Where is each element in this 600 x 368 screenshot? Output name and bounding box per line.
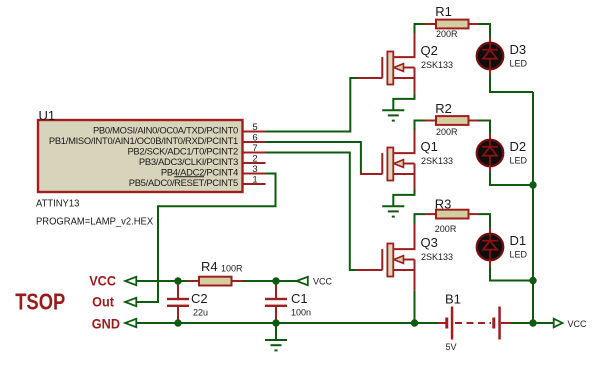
ground symbol below C1 <box>265 323 287 350</box>
svg-text:Out: Out <box>92 294 114 310</box>
svg-text:PB5/ADC0/RESET/PCINT5: PB5/ADC0/RESET/PCINT5 <box>129 177 238 188</box>
Q1 gate lead <box>360 173 382 175</box>
junction dot rail-battery <box>529 319 536 326</box>
svg-text:PB2/SCK/ADC1/T0/PCINT2: PB2/SCK/ADC1/T0/PCINT2 <box>127 146 238 157</box>
svg-text:Q2: Q2 <box>421 43 438 58</box>
battery B1 <box>438 292 512 353</box>
D3 bottom lead red <box>489 69 491 75</box>
LED D1 <box>477 228 528 266</box>
TSOP GND input terminal arrow <box>125 319 136 327</box>
B1 cell1 short plate <box>445 318 448 329</box>
D1 top lead red <box>489 228 491 234</box>
TSOP Out input terminal arrow <box>125 298 136 306</box>
capacitor C1 bottom lead <box>275 307 277 323</box>
wire D2 to VCC rail <box>490 172 533 185</box>
junction dot D2 rail <box>529 181 536 188</box>
Q1 drain lead <box>393 130 414 153</box>
svg-text:Q1: Q1 <box>421 139 438 154</box>
chip U1 body <box>38 120 243 192</box>
Q3 arrow lead line <box>403 259 415 261</box>
svg-text:D2: D2 <box>510 139 527 154</box>
Q1 drain wire green part <box>415 121 426 131</box>
svg-text:D1: D1 <box>510 233 527 248</box>
svg-text:PB3/ADC3/CLKI/PCINT3: PB3/ADC3/CLKI/PCINT3 <box>139 156 238 167</box>
resistor R1 body <box>436 20 469 29</box>
B1 left lead <box>438 322 446 324</box>
TSOP Out label <box>92 294 114 310</box>
svg-text:R3: R3 <box>435 196 452 211</box>
overline over RESET <box>174 176 204 178</box>
resistor R2 body <box>436 116 469 125</box>
pin 1 stub <box>242 183 266 185</box>
wire Q3 source to GND rail <box>414 291 416 323</box>
Q2 drain wire green part <box>415 24 426 33</box>
VCC rail wire (left) <box>137 280 188 282</box>
ground symbol at Q2 <box>382 110 404 120</box>
resistor R1 right lead <box>469 23 479 25</box>
svg-text:Q3: Q3 <box>421 235 438 250</box>
svg-text:GND: GND <box>92 316 121 332</box>
VCC rail wire (R4 right to VCC terminal) <box>243 280 297 282</box>
pin 3 stub <box>242 173 266 175</box>
D1 circle <box>477 234 503 260</box>
D2 bottom lead red <box>489 166 491 172</box>
svg-text:R1: R1 <box>435 4 452 19</box>
resistor R4 right lead <box>232 280 244 282</box>
wire R1 to D3 <box>478 24 490 37</box>
resistor R4 left lead <box>187 280 199 282</box>
wire PB4 to TSOP Out <box>137 174 276 303</box>
Q2 arrow triangle <box>394 64 404 72</box>
LED D3 <box>477 37 528 75</box>
Q3 gate lead <box>356 269 382 271</box>
svg-text:C1: C1 <box>291 291 308 306</box>
svg-text:LED: LED <box>510 58 528 68</box>
svg-text:100n: 100n <box>291 308 311 318</box>
wire PB0 to Q2 gate <box>266 78 358 132</box>
svg-text:C2: C2 <box>191 291 208 306</box>
svg-text:PROGRAM=LAMP_v2.HEX: PROGRAM=LAMP_v2.HEX <box>36 216 153 228</box>
capacitor C1 plates <box>265 298 287 300</box>
D1 diode symbol <box>482 234 498 260</box>
junction dot C2-VCC <box>174 277 181 284</box>
svg-text:PB1/MISO/INT0/AIN1/OC0B/INT0/R: PB1/MISO/INT0/AIN1/OC0B/INT0/RXD/PCINT1 <box>49 135 238 146</box>
VCC mid terminal arrow <box>297 277 308 285</box>
capacitor C2 bottom lead <box>177 307 179 323</box>
svg-text:2SK133: 2SK133 <box>421 156 453 166</box>
svg-text:VCC: VCC <box>313 277 333 287</box>
capacitor C1 top lead <box>275 281 277 298</box>
svg-text:7: 7 <box>252 143 257 154</box>
svg-text:R4: R4 <box>201 259 218 274</box>
MOSFET Q1 <box>360 121 453 191</box>
B1 cell2 long plate <box>498 307 501 340</box>
pin 7 stub <box>242 152 266 154</box>
wire R2 to D2 <box>478 121 490 135</box>
svg-text:VCC: VCC <box>89 273 116 289</box>
pin 2 stub <box>242 162 266 164</box>
svg-text:200R: 200R <box>436 29 458 39</box>
MOSFET Q3 <box>356 214 453 291</box>
Q1 channel bar <box>387 148 393 181</box>
wire Q2 source to ground <box>393 94 414 110</box>
wire D3 to VCC rail <box>490 75 533 92</box>
svg-text:100R: 100R <box>221 264 243 274</box>
wire battery to VCC terminal <box>511 322 554 324</box>
D1 bottom lead red <box>489 260 491 266</box>
svg-text:2SK133: 2SK133 <box>421 60 453 70</box>
D2 circle <box>477 140 503 166</box>
pin 5 stub <box>242 131 266 133</box>
svg-text:200R: 200R <box>436 127 458 137</box>
MOSFET Q2 <box>357 24 453 94</box>
chip U1 program property text <box>36 216 153 228</box>
Q3 gate line <box>381 249 383 270</box>
svg-text:5V: 5V <box>446 342 457 352</box>
VCC right rail wire <box>532 92 534 323</box>
junction dot C1-GND <box>272 319 279 326</box>
wire R3 to D1 <box>478 214 490 228</box>
VCC right terminal arrow <box>554 319 563 328</box>
resistor R2 right lead <box>469 120 479 122</box>
Q2 source lead <box>393 78 414 94</box>
Q3 channel bar <box>387 244 393 277</box>
TSOP GND label <box>92 316 121 332</box>
svg-text:TSOP: TSOP <box>15 290 65 315</box>
svg-text:LED: LED <box>510 249 528 259</box>
Q3 drain wire green part <box>415 214 426 224</box>
Q1 gate line <box>381 153 383 174</box>
B1 cell2 short plate <box>492 318 495 329</box>
svg-text:3: 3 <box>252 164 257 175</box>
svg-text:U1: U1 <box>39 108 56 123</box>
Q1 arrow triangle <box>394 160 404 168</box>
junction dot C1-VCC <box>272 277 279 284</box>
svg-text:5: 5 <box>252 122 257 133</box>
Q3 arrow triangle <box>394 256 404 264</box>
Q2 drain lead <box>393 33 414 57</box>
Q2 arrow lead line <box>403 67 415 69</box>
capacitor C2 top lead <box>177 281 179 298</box>
D3 top lead red <box>489 37 491 43</box>
D2 diode symbol <box>482 140 498 166</box>
svg-text:LED: LED <box>510 155 528 165</box>
pin 6 stub <box>242 141 266 143</box>
svg-text:R2: R2 <box>435 101 452 116</box>
svg-text:2SK133: 2SK133 <box>421 252 453 262</box>
svg-text:B1: B1 <box>445 292 461 307</box>
svg-text:6: 6 <box>252 133 257 144</box>
TSOP label <box>15 290 65 315</box>
junction dot D1 rail <box>529 277 536 284</box>
svg-text:22u: 22u <box>193 308 208 318</box>
junction dot C2-GND <box>174 319 181 326</box>
svg-text:ATTINY13: ATTINY13 <box>36 198 80 210</box>
wire D1 to VCC rail <box>490 266 533 281</box>
ground symbol at Q1 <box>382 206 404 216</box>
B1 cell1 long plate <box>451 307 454 340</box>
svg-text:PB0/MOSI/AIN0/OC0A/TXD/PCINT0: PB0/MOSI/AIN0/OC0A/TXD/PCINT0 <box>93 125 238 136</box>
B1 right lead <box>501 322 511 324</box>
Q2 gate lead <box>357 77 382 79</box>
resistor R3 right lead <box>469 213 479 215</box>
Q3 source lead <box>393 270 414 291</box>
wire PB2 to Q3 gate <box>266 153 357 271</box>
svg-text:D3: D3 <box>510 42 527 57</box>
Q1 source lead <box>393 174 414 190</box>
resistor R1 left lead <box>425 23 436 25</box>
D2 top lead red <box>489 134 491 140</box>
Q1 arrow lead line <box>403 163 415 165</box>
Q2 channel bar <box>387 52 393 85</box>
TSOP VCC input terminal arrow <box>125 277 136 285</box>
svg-text:200R: 200R <box>435 224 457 234</box>
LED D2 <box>477 134 528 172</box>
capacitor C2 plates <box>167 298 189 300</box>
resistor R2 left lead <box>425 120 436 122</box>
chip U1 part name ATTINY13 <box>36 198 80 210</box>
GND rail wire <box>137 322 438 324</box>
D3 circle <box>477 43 503 69</box>
D3 diode symbol <box>482 43 498 69</box>
svg-text:1: 1 <box>252 175 257 186</box>
junction dot Q3-GND rail <box>411 319 418 326</box>
wire Q1 source to ground <box>393 190 414 206</box>
svg-text:VCC: VCC <box>568 319 588 329</box>
resistor R3 body <box>436 210 469 219</box>
svg-text:PB4/ADC2/PCINT4: PB4/ADC2/PCINT4 <box>161 167 238 178</box>
resistor R4 body <box>199 277 232 286</box>
TSOP VCC label <box>89 273 116 289</box>
B1 dashed link <box>455 322 491 324</box>
Q2 gate line <box>381 57 383 78</box>
Q3 drain lead <box>393 224 414 249</box>
resistor R3 left lead <box>425 213 436 215</box>
wire PB1 to Q1 gate <box>266 142 361 174</box>
svg-text:2: 2 <box>252 154 257 165</box>
